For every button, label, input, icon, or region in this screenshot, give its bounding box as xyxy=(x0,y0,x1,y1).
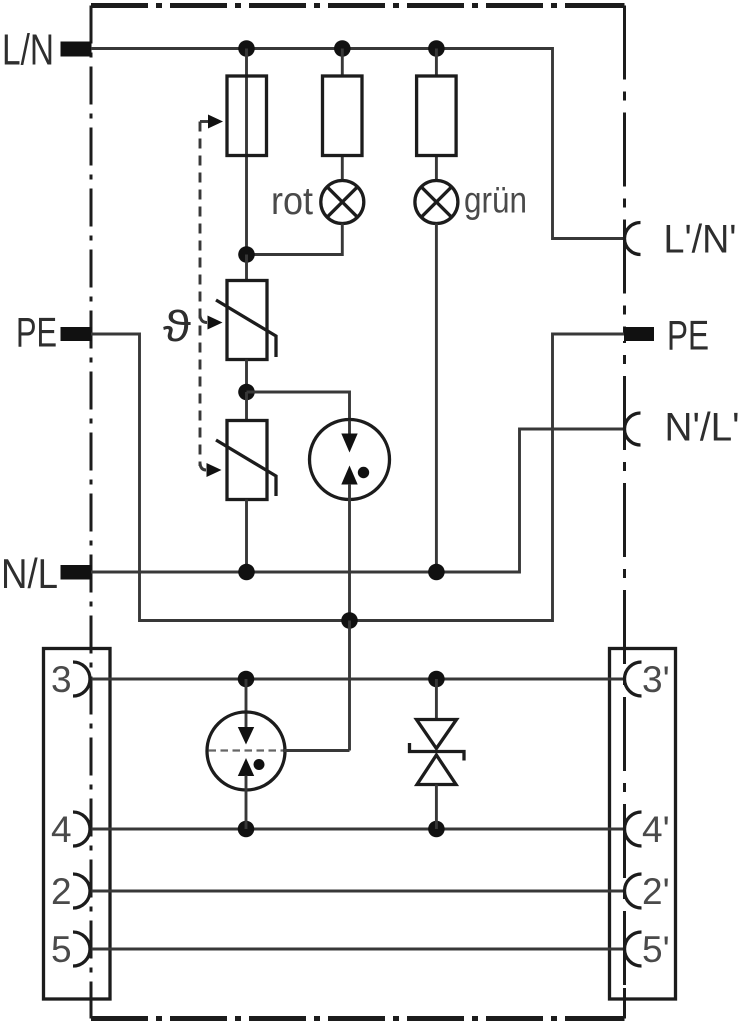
node L/N-rot xyxy=(334,40,351,57)
connector socket N'/L' xyxy=(625,413,641,445)
svg-text:L/N: L/N xyxy=(2,26,54,75)
svg-text:grün: grün xyxy=(464,180,527,221)
terminal block left xyxy=(44,649,111,1000)
lamp rot H1 xyxy=(321,181,364,224)
svg-text:2: 2 xyxy=(51,871,72,912)
connector socket 2 xyxy=(73,874,90,908)
connector socket 4 xyxy=(73,812,90,846)
terminal L/N xyxy=(61,42,92,57)
connector socket L'/N' xyxy=(625,223,641,255)
thermal disconnect dashed link xyxy=(199,122,202,467)
wire N/L to N'/L' xyxy=(91,429,624,572)
node L/N-fuse xyxy=(238,40,255,57)
svg-text:2': 2' xyxy=(642,871,670,912)
terminal PE right xyxy=(624,327,654,341)
lamp gruen H2 xyxy=(415,181,458,224)
wire varistor RV2 bottom xyxy=(245,500,248,573)
wire GDT2 top xyxy=(245,679,248,728)
svg-text:4: 4 xyxy=(51,809,72,850)
wire rot branch upper xyxy=(341,49,344,181)
terminal block right xyxy=(610,649,676,1000)
node PE-GDT xyxy=(341,612,358,629)
wire gruen branch upper xyxy=(435,49,438,181)
gas discharge tube GDT1 xyxy=(310,420,390,500)
resistor R1 xyxy=(323,76,363,156)
svg-text:3': 3' xyxy=(642,659,670,700)
wire varistor RV1 top xyxy=(245,255,248,281)
svg-text:N'/L': N'/L' xyxy=(665,406,738,450)
wire GDT2 electrode gap (dashed) xyxy=(209,749,284,751)
varistor RV1 xyxy=(216,281,276,360)
wire line 4 xyxy=(90,828,624,831)
wire midpoint to GDT1 xyxy=(247,392,350,421)
node L/N-gruen xyxy=(428,40,445,57)
wire L/N top bus to L'/N' xyxy=(91,49,624,239)
enclosure border bottom (dash-dot) xyxy=(91,1016,625,1021)
enclosure border right (dash-dot) xyxy=(623,6,626,335)
node 3-GDT2 xyxy=(238,671,255,688)
wire fuse string xyxy=(245,49,248,255)
wire line 2 xyxy=(90,890,624,893)
fuse F1 xyxy=(227,76,267,156)
thermal arrow to fuse xyxy=(200,115,223,129)
gas discharge tube GDT2 xyxy=(207,712,285,790)
connector socket 4' xyxy=(625,812,642,846)
svg-text:5': 5' xyxy=(642,929,670,970)
node 3-TVS xyxy=(428,671,445,688)
connector socket 3 xyxy=(73,662,90,696)
wire GDT2 bottom xyxy=(245,776,248,830)
thermal arrow to varistor RV2 xyxy=(200,463,206,470)
svg-text:PE: PE xyxy=(667,312,709,359)
wire rot branch lower xyxy=(247,224,343,255)
node fuse-varistor xyxy=(238,246,255,263)
wire varistor RV1 bottom xyxy=(245,360,248,393)
svg-text:rot: rot xyxy=(271,180,313,223)
wire gruen branch to N/L xyxy=(435,224,438,573)
wire varistor RV2 top xyxy=(245,392,248,421)
wire PE bus xyxy=(91,334,624,621)
resistor R2 xyxy=(417,76,457,156)
node varistor midpoint xyxy=(238,384,255,401)
terminal N/L xyxy=(61,565,92,580)
node N/L-gruen xyxy=(428,564,445,581)
svg-text:3: 3 xyxy=(51,659,72,700)
connector socket 5' xyxy=(625,932,642,966)
wire line 5 xyxy=(90,948,624,951)
svg-text:5: 5 xyxy=(51,929,72,970)
svg-text:ϑ: ϑ xyxy=(163,302,191,351)
node 4-TVS xyxy=(428,821,445,838)
connector socket 2' xyxy=(625,874,642,908)
wire TVS top xyxy=(435,679,438,720)
node N/L-varistor xyxy=(238,564,255,581)
wire GDT1 to PE bus xyxy=(348,484,351,621)
wire GDT2 center tap to PE xyxy=(283,621,350,751)
thermal arrow to varistor RV1 xyxy=(200,315,207,323)
wire TVS bottom xyxy=(435,785,438,830)
wire line 3 xyxy=(90,678,624,681)
svg-text:4': 4' xyxy=(642,809,670,850)
suppressor diode TVS xyxy=(410,720,465,785)
svg-text:PE: PE xyxy=(16,309,57,356)
terminal PE left xyxy=(61,327,92,341)
enclosure border top (dash-dot) xyxy=(91,3,625,8)
svg-text:N/L: N/L xyxy=(1,550,58,597)
connector socket 3' xyxy=(625,662,642,696)
node 4-GDT2 xyxy=(238,821,255,838)
enclosure border left (dash-dot) xyxy=(90,6,93,1019)
varistor RV2 xyxy=(216,421,276,500)
svg-text:L'/N': L'/N' xyxy=(664,218,737,262)
connector socket 5 xyxy=(73,932,90,966)
